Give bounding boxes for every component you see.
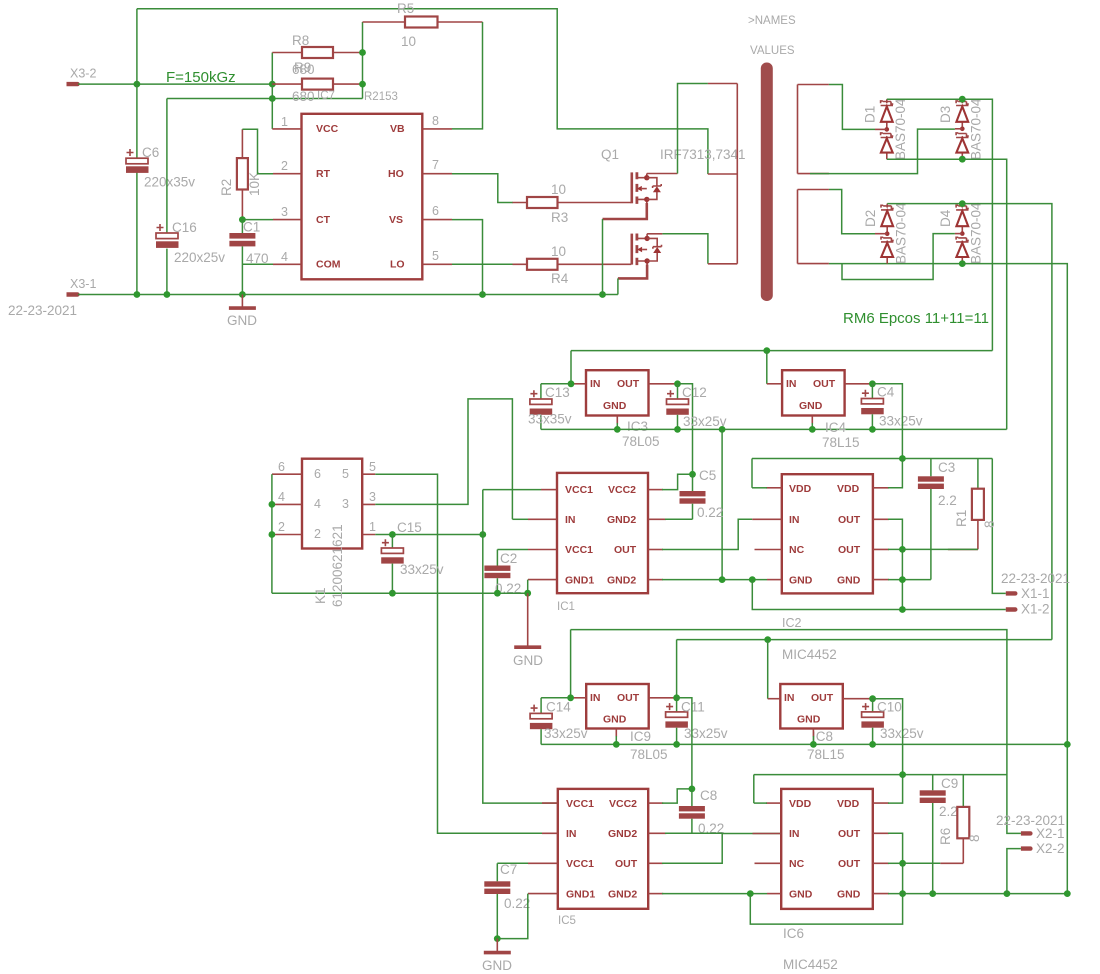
svg-text:C9: C9 <box>941 776 958 791</box>
junction rail at C2 <box>494 590 501 597</box>
junction IC9 GND <box>613 741 620 748</box>
pin IC5 OUT row3 to IC6 IN <box>648 862 663 864</box>
wire X2-2 to GND row <box>1007 849 1021 894</box>
wire LO pin5 to R4 <box>452 263 513 265</box>
wire vertical R5 left node <box>362 22 364 99</box>
wire C4 node right and down to VDD line <box>872 384 902 459</box>
svg-text:GND2: GND2 <box>607 514 636 526</box>
junction on X3-2 line at R9 left <box>269 81 276 88</box>
svg-text:0.22: 0.22 <box>697 505 723 520</box>
wire IC3 IN to C13 <box>541 383 571 385</box>
junction row4 at X1-2 drop <box>749 576 756 583</box>
svg-text:3: 3 <box>369 490 376 504</box>
pin IC6 IN stub <box>753 833 782 835</box>
svg-text:VDD: VDD <box>789 798 812 810</box>
junction bottom rail at D4 drop <box>1064 741 1071 748</box>
wire K1 pin1 C15 row <box>375 534 483 536</box>
transformer primary winding <box>708 84 738 264</box>
svg-text:C6: C6 <box>142 145 159 160</box>
wire K1 pin5 down to IC5 IN <box>375 474 558 833</box>
svg-text:IN: IN <box>784 692 795 704</box>
junction IC3 OUT <box>674 380 681 387</box>
junction OUT node bottom <box>899 860 906 867</box>
junction IC4 OUT / C4 <box>869 380 876 387</box>
pin IC9 OUT stub <box>649 697 677 699</box>
svg-text:C3: C3 <box>938 460 955 475</box>
svg-text:GND: GND <box>227 313 257 328</box>
pin IC2 OUT row2 stub <box>873 518 889 520</box>
resistor R2 vertical <box>219 129 262 219</box>
svg-text:BAS70-04: BAS70-04 <box>969 98 984 160</box>
svg-text:X3-1: X3-1 <box>70 277 96 291</box>
pin IC6 VDD right stub <box>873 802 889 804</box>
pin IC2 IN stub <box>752 518 782 520</box>
pin IC2 VDD left loop <box>766 487 782 489</box>
svg-text:10: 10 <box>401 34 416 49</box>
svg-text:R8: R8 <box>292 33 309 48</box>
svg-text:RT: RT <box>316 168 331 180</box>
svg-text:5: 5 <box>369 460 376 474</box>
svg-text:2.2: 2.2 <box>939 804 958 819</box>
resistor R4 <box>513 244 632 286</box>
junction OUT at GND row <box>899 890 906 897</box>
wire rail down to IC4 IN <box>766 351 768 384</box>
svg-text:C11: C11 <box>681 700 705 715</box>
wire bottom section feed line B <box>677 639 1052 641</box>
wire C10 node down to VDD line <box>873 699 903 775</box>
svg-text:IC4: IC4 <box>825 420 847 435</box>
svg-text:NC: NC <box>789 544 805 556</box>
svg-text:33x25v: 33x25v <box>879 414 923 429</box>
junction C10 bottom <box>869 741 876 748</box>
junction VDD line <box>899 455 906 462</box>
svg-text:22-23-2021: 22-23-2021 <box>1001 571 1070 586</box>
wire upper drain to top net <box>647 173 678 175</box>
svg-text:IC2: IC2 <box>782 616 802 630</box>
svg-text:CT: CT <box>316 214 331 226</box>
svg-text:X3-2: X3-2 <box>70 67 96 81</box>
svg-text:X1-1: X1-1 <box>1021 586 1050 601</box>
connector pin X2-1 <box>1021 831 1033 835</box>
resistor R9 <box>272 79 362 90</box>
svg-text:NC: NC <box>789 858 805 870</box>
svg-text:VCC2: VCC2 <box>609 798 637 810</box>
svg-text:D1: D1 <box>863 106 878 123</box>
wire D2 top to D4 top <box>887 203 962 205</box>
IC5 driver box <box>558 789 648 927</box>
svg-text:IC7: IC7 <box>317 90 335 102</box>
wire C6 vertical upper <box>136 9 138 158</box>
wire X1-2 line <box>752 580 1006 610</box>
pin IC2 GND right stub <box>873 579 889 581</box>
svg-text:D2: D2 <box>863 210 878 227</box>
wire top rail from C6 to transformer drain net <box>137 9 708 174</box>
svg-text:VS: VS <box>389 214 403 226</box>
svg-text:GND1: GND1 <box>566 889 595 901</box>
junction C11 bottom <box>673 741 680 748</box>
pin IC5 GND2 row4 to IC6 GND <box>648 893 663 895</box>
junction row4 at rail drop <box>719 576 726 583</box>
svg-text:IC1: IC1 <box>557 601 575 613</box>
svg-text:GND: GND <box>799 400 823 412</box>
capacitor C9 <box>920 775 959 894</box>
pin 6 VS stub <box>422 219 452 221</box>
svg-text:7: 7 <box>432 158 439 172</box>
junction IC9 IN <box>567 694 574 701</box>
svg-text:C1: C1 <box>243 220 260 235</box>
junction R8 right <box>359 49 366 56</box>
pin 7 HO stub <box>422 173 452 175</box>
capacitor C1 <box>229 220 268 267</box>
junction D4 bottom <box>959 260 966 267</box>
junction R9 right <box>359 81 366 88</box>
regulator IC4 78L15 box <box>782 370 859 450</box>
transformer secondary winding lower <box>798 190 829 264</box>
svg-text:220x25v: 220x25v <box>174 250 225 265</box>
wire COM pin link <box>242 263 273 265</box>
junction line B at IC8 IN <box>764 636 771 643</box>
svg-text:IN: IN <box>566 828 577 840</box>
wire IC8 IN drop <box>767 640 769 699</box>
capacitor C5 <box>680 468 724 520</box>
connector pin X3-1 <box>67 292 80 296</box>
junction C15 top <box>389 531 396 538</box>
svg-text:3: 3 <box>281 205 288 219</box>
wire OUT down to GND row <box>902 863 904 893</box>
svg-text:C15: C15 <box>397 520 422 535</box>
svg-text:OUT: OUT <box>838 544 861 556</box>
wire lower winding top to D2 center <box>829 190 875 234</box>
svg-text:GND: GND <box>513 653 543 668</box>
pin IC8 GND stub <box>812 729 814 737</box>
resistor R1 vertical <box>948 459 997 550</box>
regulator IC9 78L05 box <box>586 684 667 762</box>
resistor R3 <box>513 182 632 225</box>
svg-text:GND2: GND2 <box>607 575 636 587</box>
junction VDD line bottom <box>899 771 906 778</box>
svg-text:GND: GND <box>797 714 821 726</box>
diode D3 dual BAS70-04 <box>938 98 984 160</box>
svg-text:RM6 Epcos 11+11=11: RM6 Epcos 11+11=11 <box>843 310 989 327</box>
svg-text:10: 10 <box>551 182 566 197</box>
svg-text:GND: GND <box>837 575 861 587</box>
wire vertical from R8 left to pin 1 VCC <box>271 53 273 129</box>
pin IN row2 stub <box>528 518 557 520</box>
IC2 MIC4452 box <box>782 474 873 662</box>
wire jog to D4 center <box>842 234 955 280</box>
svg-text:VCC1: VCC1 <box>566 798 594 810</box>
transformer core bar <box>761 63 773 302</box>
junction VCC node <box>269 95 276 102</box>
transistor Q1 lower MOSFET <box>618 234 662 279</box>
wire D3 bottom to mid gnd rail <box>962 159 1006 429</box>
wire OUT down to GND and X1-2 <box>901 549 903 609</box>
svg-text:VCC1: VCC1 <box>565 544 593 556</box>
capacitor C4 <box>861 384 923 430</box>
svg-text:F=150kGz: F=150kGz <box>166 69 236 86</box>
svg-text:C8: C8 <box>700 788 717 803</box>
svg-text:HO: HO <box>388 168 404 180</box>
junction gnd rail drop to IC row <box>719 426 726 433</box>
svg-text:22-23-2021: 22-23-2021 <box>996 813 1065 828</box>
wire CT pin to R2/C1 node <box>242 219 273 221</box>
junction rail at C15 <box>389 590 396 597</box>
svg-text:6: 6 <box>278 460 285 474</box>
junction C8 top node <box>689 786 696 793</box>
svg-text:8: 8 <box>432 114 439 128</box>
pin 5 LO stub <box>422 263 452 265</box>
junction X1-2 at OUT drop <box>899 606 906 613</box>
svg-text:2: 2 <box>278 520 285 534</box>
svg-text:IC9: IC9 <box>630 729 651 744</box>
svg-text:OUT: OUT <box>617 378 640 390</box>
wire OUT to R1 bottom <box>902 548 978 550</box>
svg-text:4: 4 <box>281 250 288 264</box>
junction VCC1 net <box>479 531 486 538</box>
wire bottom section feed line A <box>571 630 1021 834</box>
svg-text:VDD: VDD <box>789 483 812 495</box>
junction C12 bottom <box>674 426 681 433</box>
wire VDD distribution line bottom <box>754 774 1007 776</box>
capacitor C11 <box>665 698 727 745</box>
svg-text:IC5: IC5 <box>558 915 576 927</box>
pin IC6 GND right row to D4 net <box>873 893 889 895</box>
pin IC4 GND stub <box>811 416 813 424</box>
svg-text:IN: IN <box>786 378 797 390</box>
svg-text:33x35v: 33x35v <box>528 412 572 427</box>
pin GND1 row4 stub <box>528 579 557 581</box>
svg-text:R9: R9 <box>294 60 311 75</box>
wire IC9 IN to C14 <box>541 697 571 699</box>
wire bottom gnd rail <box>541 743 1067 745</box>
junction C4 bottom <box>869 426 876 433</box>
pin IC5 VCC2 stub to C8 node <box>648 802 663 804</box>
wire mid gnd rail <box>541 428 1007 430</box>
svg-text:GND2: GND2 <box>608 889 637 901</box>
svg-text:R4: R4 <box>551 271 569 286</box>
svg-text:22-23-2021: 22-23-2021 <box>8 303 77 318</box>
svg-text:D4: D4 <box>938 209 953 227</box>
wire X3-2 supply line <box>78 83 272 85</box>
wire VS pin6 down to bottom rail <box>452 220 483 295</box>
capacitor C7 <box>484 862 530 939</box>
svg-text:2: 2 <box>314 527 321 541</box>
junction IC8 GND <box>810 741 817 748</box>
wire line A down to IC9 IN <box>570 630 572 698</box>
pin IC3 IN stub <box>571 383 586 385</box>
svg-text:C2: C2 <box>500 551 517 566</box>
ground symbol bottom GND <box>482 939 512 973</box>
wire K1 ground rail <box>272 592 528 594</box>
junction IC4 GND <box>809 426 816 433</box>
diode D1 dual BAS70-04 <box>863 98 909 160</box>
wire D4 bottom down right side <box>962 264 1067 894</box>
junction D3 bottom <box>959 156 966 163</box>
ground symbol mid GND <box>513 593 543 668</box>
wire R5 right to pin8 VB <box>452 22 483 129</box>
svg-text:78L15: 78L15 <box>822 435 860 450</box>
IC IC7 IR2153 box <box>302 114 423 279</box>
pin IC2 VDD right stub up to node <box>873 487 889 489</box>
svg-text:5: 5 <box>342 467 349 481</box>
junction D4 top <box>959 200 966 207</box>
wire D3 top to plus rail of mid section <box>962 99 992 350</box>
pin 1 VCC stub <box>272 128 301 130</box>
svg-text:IN: IN <box>590 692 601 704</box>
pin IC2 NC stub <box>755 549 782 551</box>
svg-text:220x35v: 220x35v <box>144 175 195 190</box>
wire drain net up to transformer <box>678 84 708 174</box>
junction bottom rail at C6 <box>134 291 141 298</box>
capacitor C13 <box>528 384 572 430</box>
junction K1 pin4 <box>269 501 276 508</box>
capacitor C15 <box>381 520 444 593</box>
junction IC8 OUT / C10 <box>869 695 876 702</box>
wire VCC1 net down to IC5 <box>483 490 558 803</box>
junction bottom rail at GND <box>239 291 246 298</box>
svg-text:1: 1 <box>281 115 288 129</box>
svg-text:33x25v: 33x25v <box>400 562 444 577</box>
capacitor C14 <box>530 698 588 745</box>
svg-text:C14: C14 <box>546 700 571 715</box>
wire C6 vertical lower <box>136 172 138 295</box>
pin IC5 GND2 row2 stub to C8 bottom <box>648 832 666 834</box>
svg-text:GND: GND <box>482 958 512 973</box>
regulator IC8 78L15 box <box>780 684 844 762</box>
junction bottom rail at C16 <box>164 291 171 298</box>
junction GND right <box>899 576 906 583</box>
capacitor C16 <box>156 220 225 265</box>
junction D3 top <box>959 96 966 103</box>
junction R2 bottom CT node <box>239 216 246 223</box>
svg-text:0.22: 0.22 <box>504 896 530 911</box>
svg-text:BAS70-04: BAS70-04 <box>969 202 984 264</box>
pin 4 COM stub <box>273 263 302 265</box>
K1 transformer box <box>278 459 376 607</box>
pin 3 CT stub <box>273 219 302 221</box>
svg-text:IC3: IC3 <box>627 419 648 434</box>
wire D1 top to D3 top <box>887 98 963 100</box>
svg-text:X2-2: X2-2 <box>1036 841 1065 856</box>
diode D2 dual BAS70-04 <box>863 202 909 264</box>
junction row4 left <box>747 890 754 897</box>
svg-text:OUT: OUT <box>617 692 640 704</box>
svg-text:VDD: VDD <box>837 483 860 495</box>
connector pin X3-2 <box>67 82 80 86</box>
wire line B down to C11 node <box>676 640 678 698</box>
svg-text:C5: C5 <box>699 468 716 483</box>
pin K1 right stubs <box>362 474 375 534</box>
svg-text:VCC2: VCC2 <box>608 484 636 496</box>
wire upper source down to rail <box>602 219 604 295</box>
svg-text:6: 6 <box>314 467 321 481</box>
pin IC8 OUT stub <box>843 698 873 700</box>
ground symbol top GND <box>227 295 257 329</box>
svg-text:VCC: VCC <box>316 123 339 135</box>
svg-text:GND: GND <box>603 400 627 412</box>
svg-text:R2: R2 <box>219 179 234 196</box>
pin IC4 OUT stub <box>845 383 873 385</box>
transistor Q1 upper MOSFET <box>603 172 662 219</box>
svg-text:GND: GND <box>837 889 861 901</box>
svg-text:33x25v: 33x25v <box>544 726 588 741</box>
wire GND2 row4 to IC2 GND <box>648 579 663 581</box>
svg-text:3: 3 <box>342 497 349 511</box>
svg-text:C12: C12 <box>682 385 707 400</box>
svg-text:C13: C13 <box>545 385 570 400</box>
svg-text:VCC1: VCC1 <box>566 858 594 870</box>
svg-text:OUT: OUT <box>838 514 861 526</box>
pin OUT row3 to IC2 IN <box>648 549 663 551</box>
pin IC6 VDD left loop <box>766 802 781 804</box>
svg-text:4: 4 <box>278 490 285 504</box>
svg-text:8: 8 <box>982 520 997 528</box>
wire lower winding bottom through D2 bottom to D4 bottom <box>829 263 962 265</box>
svg-text:X1-2: X1-2 <box>1021 602 1050 617</box>
pin 8 VB stub <box>422 128 452 130</box>
pin IC4 IN stub <box>767 383 782 385</box>
wire C11 node to C8 node <box>677 698 692 789</box>
wire upper winding top to D1 center <box>829 85 875 130</box>
svg-text:R6: R6 <box>938 828 953 845</box>
pin VCC1 row3 stub <box>528 549 557 551</box>
svg-text:6: 6 <box>432 204 439 218</box>
pin VCC2 stub and link to C5 node <box>648 489 663 491</box>
svg-text:C16: C16 <box>172 220 197 235</box>
junction C7 bottom GND <box>494 935 501 942</box>
svg-text:IN: IN <box>789 828 800 840</box>
pin IC8 IN stub <box>768 698 781 700</box>
capacitor C8 <box>679 788 724 836</box>
junction OUT node <box>899 546 906 553</box>
IC6 MIC4452 box <box>781 789 873 972</box>
wire mid section plus rail <box>571 350 992 352</box>
svg-text:C7: C7 <box>500 862 517 877</box>
regulator IC3 78L05 box <box>586 370 660 449</box>
wire C16 vertical lower <box>166 249 168 295</box>
junction bottom rail at VS <box>479 291 486 298</box>
pin IC3 OUT stub <box>649 383 678 385</box>
junction IC3 IN <box>568 380 575 387</box>
diode D4 dual BAS70-04 <box>938 202 984 264</box>
svg-text:GND1: GND1 <box>565 575 594 587</box>
pin IC3 GND stub <box>616 416 618 424</box>
capacitor C12 <box>666 384 726 430</box>
svg-text:R2153: R2153 <box>364 91 398 103</box>
wire gnd U loop under IC6 <box>750 894 902 925</box>
junction K1 pin2 <box>269 531 276 538</box>
pin IC6 GND left stub <box>767 893 781 895</box>
svg-text:C10: C10 <box>877 700 902 715</box>
pin K1 left stubs <box>272 474 302 534</box>
IC1 driver box <box>557 473 648 613</box>
pin IC2 OUT row3 stub <box>873 548 889 550</box>
wire D4 top to bottom section <box>962 204 1052 640</box>
svg-text:GND: GND <box>789 889 813 901</box>
svg-text:OUT: OUT <box>838 828 861 840</box>
svg-text:R5: R5 <box>397 1 414 16</box>
connector pin X2-2 <box>1021 846 1033 850</box>
connector pin X1-1 <box>1006 591 1018 595</box>
pin IC2 GND left stub <box>767 579 782 581</box>
wire VDD distribution line <box>752 458 992 460</box>
pin IC9 IN stub <box>571 697 587 699</box>
svg-text:Q1: Q1 <box>601 147 619 162</box>
pin IC5 row stubs left <box>528 803 558 894</box>
svg-text:8: 8 <box>967 834 982 842</box>
pin IC6 OUT row2 stub <box>873 832 889 834</box>
svg-text:VALUES: VALUES <box>750 45 795 57</box>
